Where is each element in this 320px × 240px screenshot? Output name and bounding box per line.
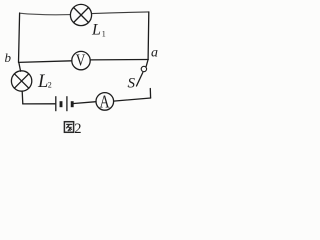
svg-text:2: 2	[48, 81, 52, 90]
svg-text:b: b	[5, 50, 12, 65]
svg-text:1: 1	[102, 30, 106, 39]
svg-text:L: L	[91, 22, 101, 39]
svg-text:S: S	[128, 75, 136, 91]
svg-text:A: A	[99, 93, 110, 112]
svg-text:L: L	[37, 72, 48, 92]
svg-text:a: a	[151, 46, 158, 61]
svg-text:2: 2	[74, 121, 81, 136]
svg-text:V: V	[76, 51, 86, 70]
